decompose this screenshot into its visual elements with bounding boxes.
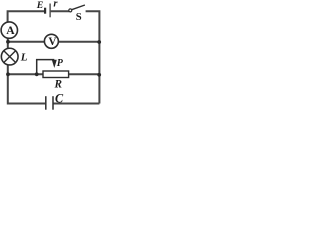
wire top-left from battery to corner, down to ammeter [8, 11, 45, 22]
svg-text:A: A [6, 24, 15, 37]
svg-text:C: C [55, 91, 64, 105]
wire left side between ammeter and lamp [7, 38, 9, 48]
switch S lever [72, 5, 85, 10]
wire rheostat branch right [69, 73, 100, 75]
svg-text:r: r [53, 0, 58, 10]
svg-text:R: R [54, 78, 63, 90]
voltmeter V circle [44, 34, 58, 48]
lamp L circle [1, 48, 18, 65]
junction dot slider arm [35, 72, 39, 76]
lamp L cross [4, 51, 16, 63]
wire bottom from capacitor to bottom-right corner [53, 103, 99, 105]
wire voltmeter branch right [58, 41, 99, 43]
junction dot right voltmeter [97, 40, 101, 44]
battery long plate [49, 4, 51, 18]
svg-text:E: E [36, 0, 44, 11]
ammeter A circle [1, 22, 17, 38]
junction dot below lamp [6, 72, 10, 76]
capacitor C right plate [52, 96, 54, 110]
junction dot below ammeter [6, 40, 10, 44]
wire rheostat branch left [8, 73, 43, 75]
switch S pivot circle [69, 9, 72, 12]
wire voltmeter branch left [8, 41, 45, 43]
svg-text:P: P [57, 58, 64, 69]
svg-text:S: S [76, 12, 82, 23]
capacitor C left plate [45, 96, 47, 110]
battery short plate [44, 8, 46, 14]
wire battery to switch [51, 10, 69, 12]
junction dot right rheostat [97, 73, 101, 77]
rheostat R box [43, 71, 69, 78]
svg-text:V: V [48, 36, 56, 48]
wire top-right from switch to corner, right side down [86, 11, 100, 103]
svg-text:L: L [20, 51, 28, 63]
rheostat slider arrowhead [52, 60, 57, 68]
wire left side from lamp to bottom corner, bottom wire to capacitor [8, 65, 45, 104]
rheostat slider arm wire [37, 60, 55, 75]
